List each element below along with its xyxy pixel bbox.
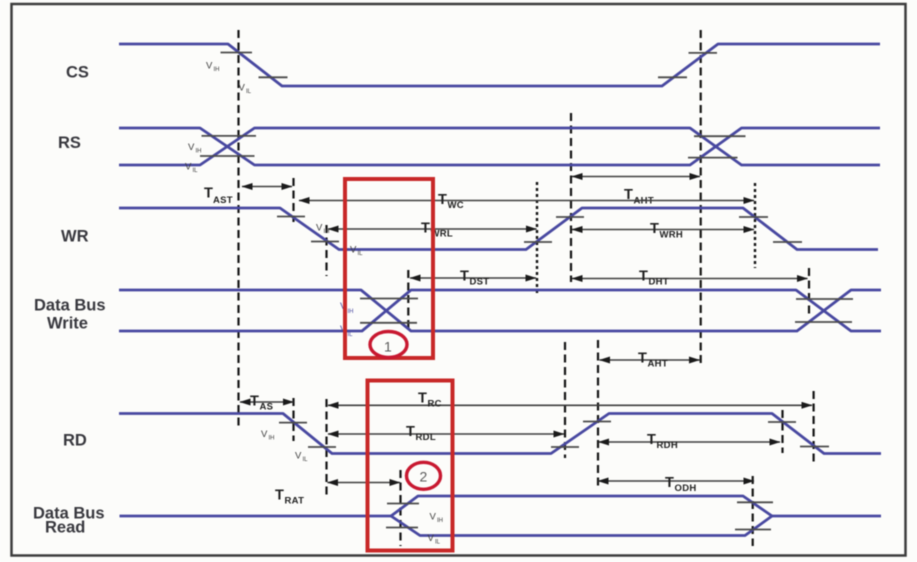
svg-text:T: T: [406, 424, 415, 440]
svg-text:T: T: [639, 269, 648, 285]
svg-text:T: T: [460, 269, 469, 285]
Data Bus Read bus lower: [391, 516, 772, 536]
RS left crossing VIH tick: [202, 135, 257, 137]
svg-text:IH: IH: [324, 229, 330, 235]
RD fall VIL tick: [308, 446, 336, 448]
svg-text:V: V: [261, 429, 268, 440]
svg-text:IH: IH: [269, 436, 275, 442]
Data Bus Read bus upper: [391, 496, 772, 516]
CS trace: [119, 44, 880, 86]
svg-text:IL: IL: [193, 168, 199, 174]
svg-text:T: T: [275, 488, 284, 504]
dashed line x=571 (WR rise VIH): [570, 113, 572, 282]
Data Bus Write trace lower: [119, 290, 881, 331]
red rectangle 1: [345, 179, 433, 358]
RD fall VIH tick: [279, 422, 307, 424]
svg-text:IL: IL: [246, 89, 252, 95]
dashed line x=809 (write data change): [808, 268, 810, 318]
svg-text:RDH: RDH: [657, 440, 678, 451]
DBW left crossing VIH tick: [360, 298, 418, 300]
svg-text:V: V: [188, 142, 195, 153]
svg-text:IL: IL: [303, 457, 309, 463]
svg-text:1: 1: [384, 339, 392, 355]
arrow TAST: [242, 186, 292, 188]
svg-text:V: V: [428, 533, 435, 544]
arrow TWRL: [328, 228, 537, 230]
svg-text:V: V: [295, 451, 302, 462]
CS fall VIH tick: [221, 52, 253, 54]
WR fall2 VIL tick: [773, 241, 802, 243]
CS rise VIL tick: [658, 76, 687, 78]
arrow TRDH: [599, 441, 781, 443]
RS right crossing VIL tick: [688, 157, 738, 159]
dashed line x=238 (CS fall / address change): [237, 30, 239, 428]
dashed line x=326 upper (WR fall VIL): [325, 225, 327, 276]
arrow TRC: [328, 404, 812, 406]
svg-text:IL: IL: [435, 540, 441, 546]
dashed line x=813 (RD second fall VIL): [812, 391, 814, 464]
Data Bus Read single line right: [772, 515, 881, 518]
svg-text:T: T: [438, 192, 447, 208]
svg-text:Write: Write: [47, 315, 88, 333]
CS rise VIH tick: [689, 52, 718, 54]
svg-text:T: T: [638, 351, 647, 367]
dashed line x=782 (RD second fall VIH): [781, 410, 783, 453]
arrow TDST: [410, 277, 536, 279]
WR fall VIL tick: [311, 241, 339, 243]
svg-text:V: V: [350, 245, 357, 256]
svg-text:CS: CS: [66, 64, 89, 82]
dashed line x=598 (RD rise VIH): [597, 340, 599, 486]
WR fall2 VIH tick: [739, 216, 768, 218]
svg-text:T: T: [204, 186, 213, 202]
svg-text:2: 2: [420, 469, 428, 485]
svg-text:T: T: [421, 221, 430, 237]
DBW right crossing VIL tick: [795, 321, 852, 323]
svg-text:T: T: [650, 221, 659, 237]
svg-text:V: V: [239, 83, 246, 94]
DBR close VIL tick: [735, 529, 771, 531]
svg-text:V: V: [316, 223, 323, 234]
WR fall VIH tick: [277, 216, 305, 218]
svg-text:T: T: [250, 394, 259, 410]
svg-text:RS: RS: [58, 134, 81, 152]
WR trace: [119, 208, 878, 250]
svg-text:IL: IL: [348, 332, 354, 338]
RD fall2 VIL tick: [800, 446, 829, 448]
svg-text:IH: IH: [348, 309, 354, 315]
arrow TDHT: [572, 278, 808, 280]
red rectangle 2: [368, 381, 453, 551]
DBR open VIH tick: [387, 503, 419, 505]
svg-text:T: T: [647, 432, 656, 448]
RD rise VIH tick: [583, 421, 611, 423]
dashed line x=752 (read bus close): [752, 476, 754, 546]
svg-text:RC: RC: [428, 399, 442, 410]
dashed line x=400 (data bus read turn-on): [399, 470, 401, 546]
Data Bus Read single line left: [120, 515, 392, 518]
svg-text:T: T: [665, 475, 674, 491]
RS left crossing VIL tick: [200, 155, 255, 157]
svg-text:AST: AST: [213, 195, 233, 206]
DBW left crossing VIL tick: [360, 322, 417, 324]
svg-text:AS: AS: [260, 402, 274, 413]
svg-text:RAT: RAT: [285, 496, 305, 507]
svg-text:V: V: [185, 162, 192, 173]
svg-text:IH: IH: [196, 149, 202, 155]
dotted line x=755 (WR second fall VIH): [754, 183, 756, 268]
arrow TAS: [240, 401, 294, 403]
RS trace lower: [119, 128, 880, 165]
dotted line x=537 (WR rise VIL): [536, 182, 538, 296]
RS trace upper: [119, 128, 880, 165]
svg-text:RDL: RDL: [416, 432, 436, 443]
svg-text:Data Bus: Data Bus: [34, 297, 106, 315]
WR rise VIL tick: [524, 241, 552, 243]
svg-text:V: V: [206, 61, 213, 72]
WR rise VIH tick: [556, 216, 584, 218]
DBW right crossing VIH tick: [796, 298, 853, 300]
arrow TODH: [598, 480, 754, 482]
svg-text:AHT: AHT: [648, 359, 668, 370]
svg-text:DST: DST: [470, 277, 490, 288]
svg-text:Read: Read: [45, 519, 85, 537]
RD fall2 VIH tick: [768, 421, 796, 423]
arrow TRDL: [328, 433, 564, 435]
dashed line x=408 (write data valid): [407, 270, 409, 328]
svg-text:RD: RD: [63, 432, 87, 450]
dashed line x=293 upper (WR fall VIH): [292, 178, 294, 222]
RD trace: [119, 414, 881, 454]
svg-text:T: T: [418, 391, 427, 407]
arrow TAHT top (RS hold): [572, 176, 700, 178]
dashed line x=326 lower (RD fall VIL / TRAT left): [325, 399, 327, 497]
svg-text:IH: IH: [214, 67, 220, 73]
arrow TWRH: [572, 229, 754, 231]
RS right crossing VIH tick: [694, 135, 746, 137]
arrow TWC: [299, 200, 754, 202]
Data Bus Write trace upper: [119, 290, 881, 331]
arrow TRAT: [328, 482, 401, 484]
dashed line x=565 (RD rise VIL): [564, 342, 566, 458]
svg-text:IL: IL: [358, 251, 364, 257]
DBR close VIH tick: [737, 501, 773, 503]
red circle 2: [407, 462, 441, 489]
dashed line x=293 lower (RD fall VIH): [292, 398, 294, 441]
CS fall VIL tick: [259, 76, 288, 78]
svg-text:DHT: DHT: [649, 277, 669, 288]
svg-text:WC: WC: [448, 200, 464, 211]
dashed line x=700 (CS rise / RS change): [700, 30, 702, 363]
svg-text:WR: WR: [61, 228, 89, 246]
svg-text:V: V: [430, 512, 437, 523]
svg-text:IH: IH: [437, 518, 443, 524]
arrow TAHT bottom: [600, 359, 700, 361]
svg-text:ODH: ODH: [675, 483, 697, 494]
RD rise VIL tick: [551, 446, 579, 448]
red circle 1: [370, 332, 407, 358]
svg-text:WRH: WRH: [660, 230, 684, 241]
DBR open VIL tick: [386, 527, 418, 529]
